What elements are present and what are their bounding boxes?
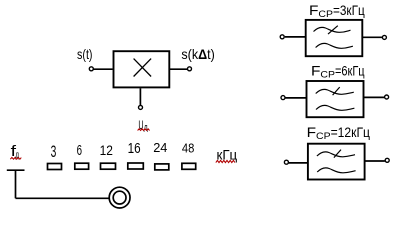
- wire: F1 output: [362, 36, 382, 38]
- wire: F2 output: [364, 96, 385, 98]
- multiplier X symbol: [134, 59, 152, 77]
- filter F3 box: [308, 144, 365, 180]
- F2 output terminal circle: [385, 95, 389, 99]
- filter F3 slash: [334, 150, 341, 158]
- filter F1 box: [306, 20, 363, 56]
- wire: clock input (down from multiplier): [139, 88, 141, 105]
- F1 output terminal circle: [382, 35, 386, 39]
- F3 input terminal circle: [284, 160, 288, 164]
- svg-text:16: 16: [128, 141, 141, 157]
- filter F2 slash: [333, 87, 340, 95]
- output terminal circle: [188, 67, 192, 71]
- spellcheck squiggle under кГц: [216, 160, 235, 162]
- svg-text:24: 24: [153, 140, 167, 155]
- tick rectangle 16 kHz: [128, 163, 144, 169]
- wire: F1 input: [285, 36, 306, 38]
- svg-text:=12кГц: =12кГц: [331, 124, 370, 140]
- input terminal circle: [89, 67, 93, 71]
- svg-text:=3кГц: =3кГц: [333, 2, 365, 18]
- tick rectangle 12 kHz: [101, 163, 116, 169]
- filter F3 top wave: [317, 152, 355, 157]
- wire: F2 input: [285, 97, 306, 99]
- multiplier box: [114, 51, 170, 87]
- filter F3 bottom wave: [317, 168, 355, 173]
- wire: multiplier output: [170, 68, 187, 70]
- tick rectangle 3 kHz: [48, 164, 62, 170]
- wire: F3 output: [365, 160, 385, 162]
- svg-text:=6кГц: =6кГц: [335, 62, 365, 78]
- F3 output terminal circle: [385, 158, 389, 162]
- tick rectangle 6 kHz: [75, 163, 89, 169]
- svg-text:3: 3: [51, 142, 57, 161]
- filter F1 bottom wave: [316, 43, 353, 48]
- wire: input to multiplier: [94, 68, 113, 70]
- axis tee top bar: [7, 169, 25, 171]
- svg-text:48: 48: [182, 140, 195, 155]
- svg-text:12: 12: [100, 143, 113, 159]
- filter F2 bottom wave: [316, 105, 354, 110]
- svg-text:6: 6: [77, 142, 82, 159]
- F1 input terminal circle: [280, 35, 284, 39]
- clock terminal circle: [139, 105, 143, 109]
- F2 input terminal circle: [281, 96, 285, 100]
- tick rectangle 48 kHz: [182, 163, 196, 169]
- filter F2 box: [307, 81, 364, 117]
- svg-text:s(kΔt): s(kΔt): [181, 46, 214, 62]
- axis vertical line: [15, 170, 17, 198]
- filter F2 top wave: [316, 89, 354, 94]
- wire to generator: [16, 197, 110, 199]
- svg-text:s(t): s(t): [77, 46, 93, 62]
- filter F1 top wave: [314, 27, 351, 32]
- spellcheck squiggle under fд: [10, 157, 21, 159]
- filter F1 slash: [328, 26, 338, 34]
- spellcheck squiggle under Uд: [138, 129, 150, 131]
- generator inner circle: [113, 191, 126, 204]
- wire: F3 input: [289, 162, 308, 164]
- generator outer circle: [109, 187, 130, 208]
- tick rectangle 24 kHz: [155, 164, 169, 170]
